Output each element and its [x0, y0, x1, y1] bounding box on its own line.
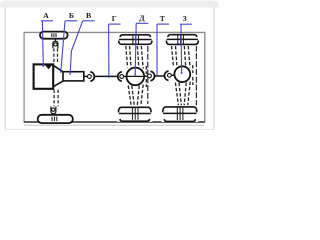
axle2 bottom dual wheel white underlay	[117, 106, 153, 122]
universal joint 1 fork arc	[90, 72, 94, 81]
underline T	[157, 23, 169, 25]
svg-text:Д: Д	[139, 13, 145, 22]
axle2 bottom dual wheel tread ticks	[132, 108, 138, 120]
front top wheel	[40, 32, 68, 39]
leader D end dot	[134, 74, 136, 76]
frame shadow line	[24, 124, 204, 126]
axle2 top dual wheel upper tire	[120, 35, 150, 37]
axle3 bottom dual wheel middle line	[163, 112, 196, 114]
inter-axle shaft	[155, 75, 164, 77]
axle2 top dual wheel middle line	[119, 39, 152, 41]
universal joint 3 fork arc	[151, 71, 155, 80]
universal joint 4 ring	[168, 73, 172, 77]
gearbox box	[63, 72, 84, 81]
card left border	[4, 8, 6, 130]
leader V end dot	[69, 73, 71, 75]
universal joint 2 ring	[120, 75, 124, 79]
axle3 top dual wheel upper tire	[168, 35, 197, 37]
front top wheel tread ticks	[52, 33, 56, 37]
frame left line	[23, 32, 25, 123]
svg-text:З: З	[183, 14, 187, 23]
front bottom knuckle fork	[51, 106, 56, 113]
axle3 bottom dual wheel lower tire	[164, 119, 195, 121]
front bottom kingpin stem	[52, 114, 54, 115]
shaft gearbox to joint1	[84, 75, 88, 77]
leader B	[61, 21, 65, 73]
front bottom kingpin ball	[52, 108, 55, 111]
universal joint 2 fork arc	[118, 72, 122, 81]
differential 2 circle	[174, 66, 190, 82]
frame right line	[204, 32, 206, 123]
universal joint 3 ring	[148, 74, 152, 78]
leader V	[70, 21, 83, 74]
svg-text:Г: Г	[112, 14, 117, 23]
axle3 top dual wheel tread ticks	[178, 36, 184, 45]
differential 1 circle	[127, 68, 145, 86]
svg-text:В: В	[86, 11, 91, 20]
axle3 top dual wheel white underlay	[165, 34, 200, 46]
leader Z	[180, 24, 183, 73]
front axle beam dashed (upper)	[54, 48, 58, 64]
axle3 housing dashed (lower)	[175, 77, 192, 105]
clutch housing trapezoid	[53, 65, 63, 86]
axle2 housing dashed (upper)	[126, 46, 147, 74]
card gray top band	[0, 1, 219, 8]
front top kingpin ball	[54, 43, 57, 46]
leader Z end dot	[181, 72, 183, 74]
engine top marker triangle	[45, 65, 53, 70]
stub diff1 to joint3	[144, 75, 147, 77]
axle2 bottom dual wheel upper tire	[118, 107, 151, 112]
card right border	[213, 8, 215, 130]
front top knuckle fork	[53, 41, 58, 48]
underline G	[109, 23, 121, 25]
leader T	[156, 24, 158, 75]
axle3 top dual wheel middle line	[167, 38, 198, 40]
leader G	[108, 24, 110, 78]
axle3 housing dashed (upper)	[172, 46, 193, 73]
driveshaft to axle2	[95, 75, 118, 77]
leader D	[135, 23, 136, 74]
axle3 top dual wheel lower tire	[166, 41, 198, 45]
leader A end dot	[42, 65, 44, 67]
front top kingpin stem	[54, 39, 56, 42]
underline V	[83, 20, 95, 22]
front bottom wheel tread ticks	[52, 117, 57, 122]
engine box	[34, 64, 54, 88]
svg-text:А: А	[43, 11, 49, 20]
svg-text:Б: Б	[69, 11, 74, 20]
axle2 long side line	[147, 46, 149, 104]
underline Z	[180, 23, 192, 25]
leader A	[41, 21, 44, 67]
axle2 bottom dual wheel lower tire	[120, 119, 149, 121]
axle2 top dual wheel white underlay	[117, 33, 153, 45]
axle2 bottom dual wheel middle line	[119, 113, 151, 115]
underline D	[136, 22, 148, 24]
front bottom wheel	[38, 115, 73, 123]
universal joint 4 fork arc	[164, 71, 168, 80]
axle3 bottom dual wheel upper tire	[163, 107, 197, 112]
axle2 housing dashed (lower)	[128, 79, 146, 106]
card bottom border	[5, 128, 214, 130]
front axle beam dashed (lower)	[54, 90, 58, 106]
leader B end dot	[60, 71, 62, 73]
axle3 bottom dual wheel tread ticks	[177, 107, 183, 120]
frame top line	[24, 31, 205, 33]
differential 1 through shaft	[127, 75, 144, 77]
stub to differential 2	[171, 74, 175, 76]
axle2 top dual wheel lower tire	[119, 41, 152, 45]
underline B	[65, 20, 77, 22]
axle3 long side line	[195, 46, 197, 106]
universal joint 1 ring	[88, 75, 92, 79]
svg-text:Т: Т	[160, 14, 166, 23]
frame bottom line	[24, 121, 205, 123]
stub to differential 1	[124, 75, 127, 77]
underline A	[41, 20, 53, 22]
axle3 bottom dual wheel white underlay	[161, 105, 198, 122]
axle2 top dual wheel tread ticks	[133, 36, 139, 44]
